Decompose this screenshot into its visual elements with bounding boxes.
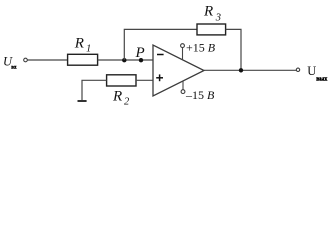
power pin -15V	[181, 81, 185, 93]
label R1	[74, 36, 91, 55]
label R3	[203, 4, 221, 24]
wire feedback branch up and over to R3	[124, 29, 197, 60]
svg-text:R: R	[74, 36, 84, 52]
svg-text:1: 1	[86, 43, 91, 54]
input terminal Uvx	[24, 58, 28, 62]
resistor R1	[68, 54, 98, 65]
label U_vyx	[307, 64, 327, 83]
svg-text:2: 2	[124, 97, 130, 108]
output terminal Uvyx	[296, 68, 299, 71]
svg-text:U: U	[307, 64, 316, 78]
node P junction dot	[139, 58, 143, 62]
svg-text:вх: вх	[11, 66, 17, 71]
op-amp inverting input marker	[157, 54, 164, 56]
resistor R3	[197, 24, 226, 35]
svg-text:R: R	[203, 4, 213, 20]
svg-text:вых: вых	[316, 76, 327, 82]
svg-text:3: 3	[215, 12, 221, 23]
op-amp non-inverting input marker	[156, 74, 163, 81]
wire input terminal to R1	[28, 59, 68, 61]
label R2	[112, 88, 130, 107]
wire R2 right to op-amp non-inverting input	[136, 79, 153, 81]
wire R3 to output node	[226, 29, 241, 70]
wire R1 to op-amp inverting input	[98, 59, 153, 61]
ground	[78, 100, 87, 102]
op-amp U1	[153, 45, 204, 96]
label U_vx	[3, 55, 17, 71]
power pin +15V	[181, 44, 185, 60]
svg-text:+15 В: +15 В	[186, 40, 216, 54]
node output junction	[239, 68, 243, 72]
svg-text:–15 В: –15 В	[185, 88, 215, 102]
svg-text:P: P	[135, 45, 145, 61]
wire R2 left to ground	[82, 80, 107, 100]
wire op-amp output to output terminal	[204, 69, 296, 71]
svg-text:R: R	[112, 88, 122, 104]
resistor R2	[107, 75, 136, 86]
junction feedback tap	[122, 58, 126, 62]
